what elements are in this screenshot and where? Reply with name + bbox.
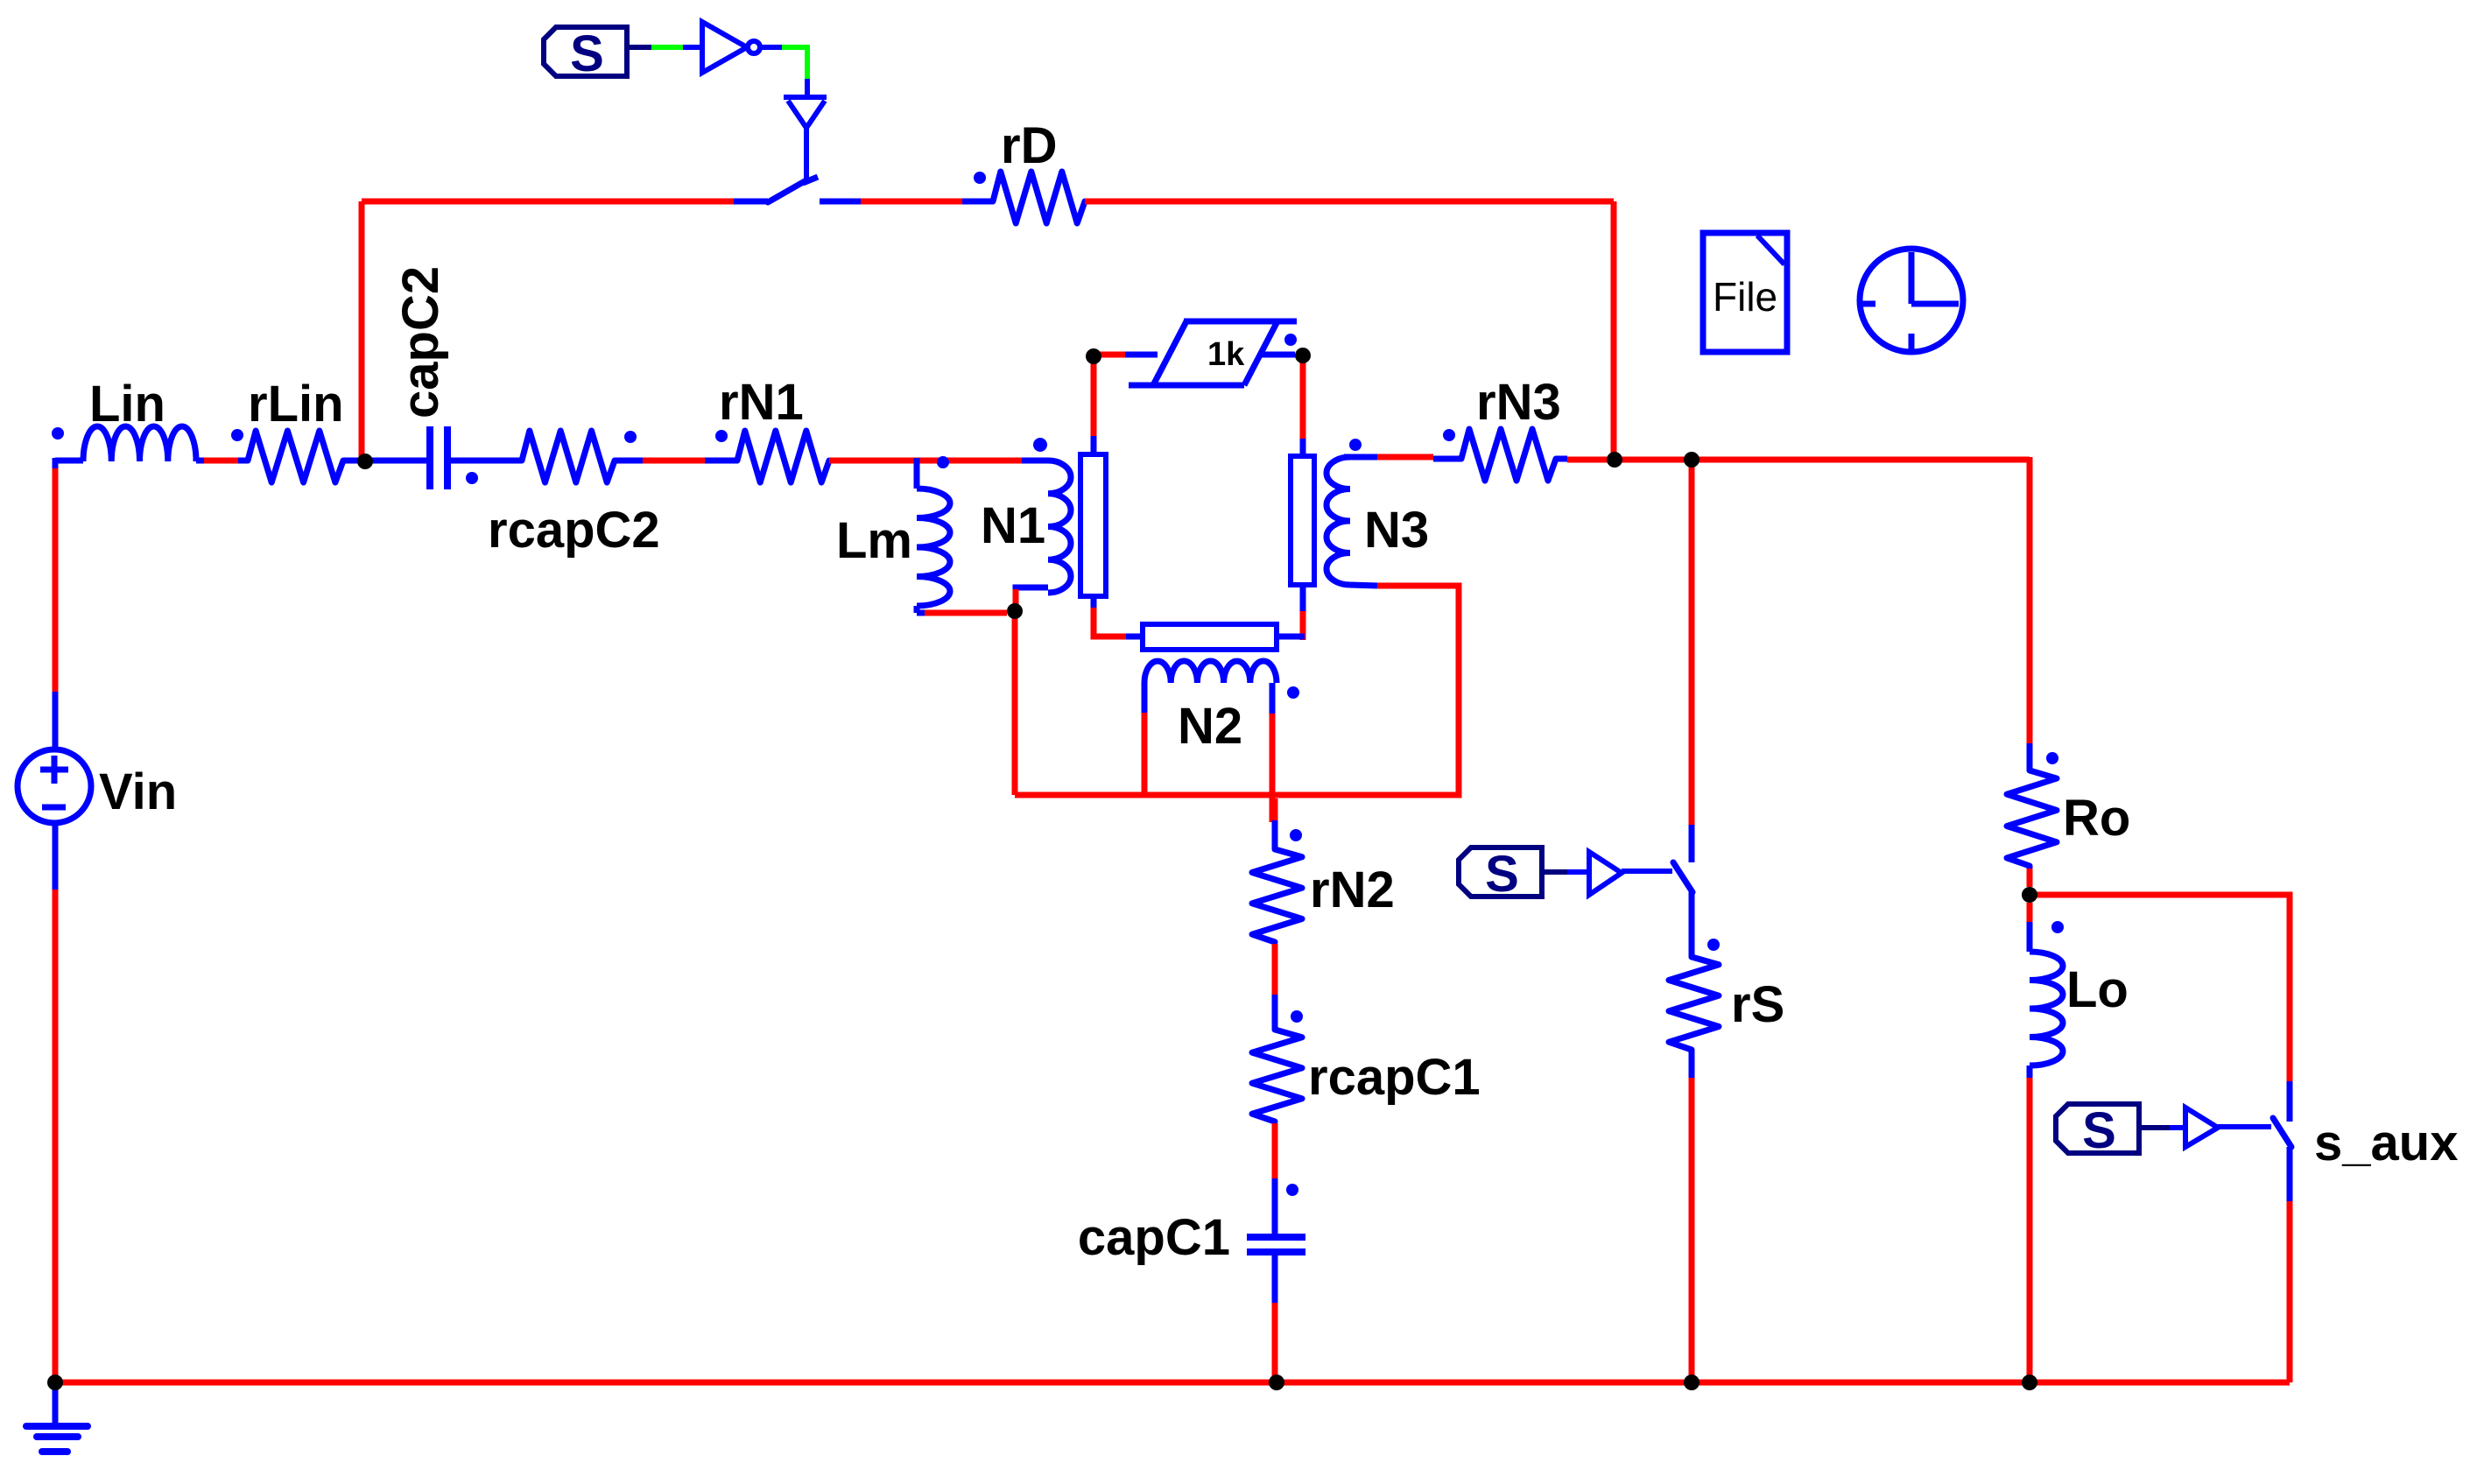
- switch s_aux blade: [2273, 1118, 2291, 1147]
- wire: [1377, 454, 1433, 461]
- node junction Lo bottom: [2022, 1375, 2037, 1390]
- capacitor capC1: [1272, 1178, 1278, 1234]
- wire: [1272, 1123, 1278, 1178]
- wire: [1542, 869, 1567, 875]
- signal source S3: [2056, 1104, 2139, 1153]
- resistor rN3: [1433, 456, 1461, 462]
- wire: [204, 458, 238, 464]
- wire: [1012, 618, 1018, 795]
- dot rN2: [1290, 829, 1302, 841]
- svg-text:rLin: rLin: [248, 376, 344, 433]
- winding N2: [1144, 661, 1277, 683]
- resistor rN2: [1272, 820, 1278, 849]
- svg-text:Vin: Vin: [99, 763, 177, 820]
- buffer s_aux: [2185, 1108, 2218, 1147]
- inductor Lm: [914, 458, 920, 489]
- wire: [2287, 1081, 2293, 1122]
- wire: [1300, 611, 1306, 640]
- wire: [1622, 869, 1672, 874]
- svg-text:N1: N1: [981, 497, 1045, 554]
- node junction capC1 bottom: [1269, 1375, 1284, 1390]
- wire: [1091, 596, 1097, 610]
- svg-text:capC2: capC2: [392, 266, 449, 418]
- wire: [1272, 798, 1278, 820]
- svg-text:S: S: [2082, 1102, 2116, 1159]
- resistor rS: [1669, 957, 1719, 1050]
- svg-text:Ro: Ro: [2063, 790, 2130, 847]
- wire: [829, 458, 1022, 464]
- dot rcapC2: [624, 431, 637, 443]
- node junction rS: [1684, 452, 1699, 468]
- wire: [1091, 436, 1097, 454]
- wire: [762, 45, 782, 50]
- wire: [53, 468, 59, 692]
- wire rD riser: [1611, 201, 1617, 456]
- wire top rail: [362, 199, 734, 205]
- wire capC2 riser: [359, 201, 365, 457]
- svg-text:N3: N3: [1364, 502, 1429, 559]
- wire: [2139, 1125, 2170, 1130]
- node junction rN3-rD: [1607, 452, 1622, 468]
- signal source S1: [544, 27, 627, 76]
- wire: [804, 126, 809, 179]
- resistor rLin: [238, 458, 248, 464]
- wire: [643, 458, 705, 464]
- svg-text:rN2: rN2: [1310, 862, 1395, 918]
- permeance 1k: [1125, 352, 1158, 358]
- wire: [1567, 457, 1615, 463]
- wire: [2027, 903, 2033, 922]
- inductor Lo: [2027, 922, 2033, 952]
- svg-text:S: S: [570, 25, 604, 82]
- svg-text:rN1: rN1: [719, 374, 804, 431]
- wire: [1300, 585, 1306, 611]
- wire: [683, 45, 700, 50]
- resistor rN1: [705, 458, 737, 464]
- dot capC2: [466, 472, 478, 484]
- resistor rcapC1: [1272, 995, 1278, 1030]
- svg-text:rS: rS: [1731, 976, 1784, 1033]
- dot Ro: [2046, 752, 2058, 764]
- wire: [1300, 361, 1306, 439]
- capacitor capC2: [362, 458, 426, 464]
- dot Lm: [937, 456, 949, 468]
- wire: [1094, 608, 1128, 637]
- wire: [1689, 1078, 1695, 1379]
- ground: [53, 1389, 59, 1425]
- dot N1: [1033, 438, 1047, 452]
- wire: [53, 458, 59, 468]
- dot Lo: [2051, 921, 2064, 933]
- core leg N1: [1080, 454, 1106, 596]
- switch S2 blade: [1673, 862, 1692, 892]
- resistor rcapC2: [522, 431, 615, 482]
- winding N1: [1048, 461, 1071, 593]
- wire: [2027, 1078, 2033, 1379]
- resistor rD: [962, 199, 993, 205]
- dot Lin right: [231, 429, 243, 441]
- wire: [2027, 869, 2033, 887]
- svg-text:N2: N2: [1178, 698, 1242, 755]
- wire: [861, 199, 962, 205]
- node junction capC2: [357, 454, 373, 469]
- dot N2: [1287, 686, 1299, 699]
- svg-text:S: S: [1485, 846, 1519, 903]
- wire: [782, 47, 807, 79]
- dot rcapC1: [1291, 1010, 1303, 1023]
- wire right rail: [1615, 457, 2030, 463]
- dot capC1: [1286, 1184, 1298, 1196]
- core bar: [1143, 624, 1277, 650]
- dot 1k right: [1284, 334, 1297, 346]
- svg-text:s_aux: s_aux: [2314, 1115, 2458, 1171]
- winding N3: [1326, 457, 1350, 585]
- inductor Lin: [55, 458, 83, 464]
- dot rD: [974, 172, 986, 184]
- buffer S2: [1589, 852, 1622, 895]
- svg-text:rcapC1: rcapC1: [1308, 1049, 1481, 1106]
- wire: [1689, 825, 1695, 862]
- node junction Lm-N1: [1007, 603, 1023, 619]
- svg-text:Lin: Lin: [89, 376, 165, 433]
- dot rN3: [1443, 429, 1455, 441]
- dot Lin left: [52, 427, 64, 440]
- wire: [2287, 1147, 2293, 1201]
- switch S1 blade: [768, 181, 805, 202]
- file block: [1703, 233, 1787, 352]
- node ground junction: [47, 1375, 63, 1390]
- switch S1 contacts: [734, 199, 768, 205]
- dot N3: [1349, 439, 1362, 451]
- dot rN1: [715, 430, 728, 442]
- wire: [1272, 1303, 1278, 1379]
- wire: [1300, 439, 1306, 456]
- wire: [2030, 895, 2290, 1081]
- svg-text:rD: rD: [1001, 117, 1057, 174]
- wire: [627, 45, 651, 50]
- node junction 1k left: [1086, 348, 1101, 364]
- wire: [1689, 460, 1695, 825]
- wire bottom rail: [55, 1380, 2290, 1386]
- node junction Ro-Lo: [2022, 887, 2037, 903]
- wire: [1270, 714, 1276, 822]
- wire: [1567, 869, 1589, 875]
- wire: [1277, 634, 1305, 640]
- node junction 1k right: [1295, 348, 1311, 363]
- wire: [2170, 1125, 2185, 1130]
- wire: [805, 79, 810, 96]
- svg-text:rcapC2: rcapC2: [488, 502, 660, 559]
- inverter: [702, 22, 747, 73]
- clock: [1860, 249, 1963, 352]
- wire: [53, 890, 59, 1382]
- svg-text:rN3: rN3: [1476, 374, 1561, 431]
- wire: [1689, 892, 1695, 957]
- resistor Ro: [2027, 743, 2033, 770]
- signal source S2: [1459, 847, 1542, 897]
- wire: [1100, 352, 1125, 358]
- voltage source Vin: [18, 749, 91, 823]
- svg-text:1k: 1k: [1207, 336, 1245, 373]
- svg-text:capC1: capC1: [1078, 1209, 1230, 1266]
- wire: [1015, 586, 1459, 795]
- wire: [2287, 1201, 2293, 1382]
- wire: [2218, 1124, 2271, 1129]
- wire: [925, 610, 1007, 616]
- wire: [2027, 457, 2033, 743]
- svg-text:File: File: [1713, 274, 1777, 320]
- core leg N3: [1291, 456, 1314, 585]
- node junction rS bottom: [1684, 1375, 1699, 1390]
- svg-text:Lm: Lm: [836, 512, 912, 569]
- wire: [1126, 634, 1143, 640]
- wire: [1013, 589, 1019, 605]
- dot rS: [1707, 939, 1720, 951]
- gate input arrow: [784, 95, 827, 100]
- wire: [1085, 199, 1614, 205]
- wire: [1272, 944, 1278, 995]
- wire: [53, 692, 59, 750]
- wire: [1022, 458, 1048, 464]
- wire: [53, 822, 59, 890]
- wire: [1142, 713, 1148, 795]
- wire: [1091, 361, 1097, 436]
- wire: [651, 45, 683, 50]
- svg-text:Lo: Lo: [2066, 961, 2129, 1018]
